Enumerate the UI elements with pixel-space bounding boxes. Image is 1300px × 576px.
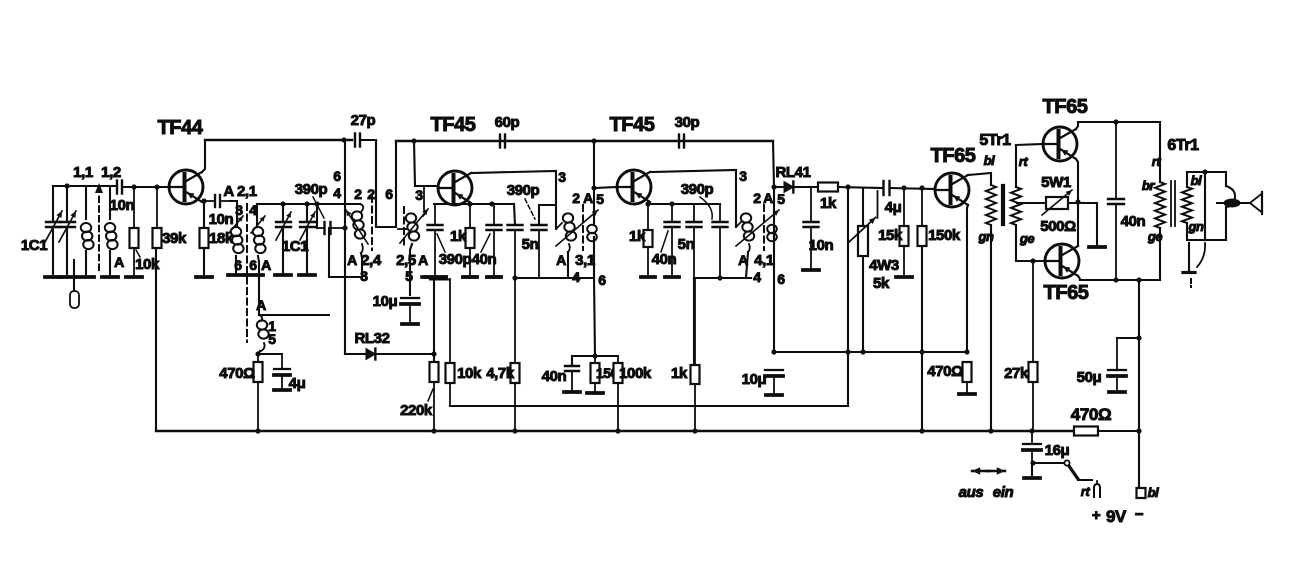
junction TF45b emitter (645, 201, 650, 206)
pointer 390p osc (313, 197, 324, 218)
junction driver bias 150k (919, 185, 924, 190)
label 50u (1077, 369, 1102, 386)
svg-text:2: 2 (753, 190, 761, 206)
diode RL32 (366, 349, 375, 360)
resistor 470R osc (254, 354, 263, 431)
junction switch (1030, 460, 1035, 465)
svg-text:390p: 390p (507, 182, 540, 199)
wire cap 516 down (514, 204, 515, 225)
junction rail B pin3 (411, 138, 416, 143)
svg-text:470Ω: 470Ω (927, 363, 963, 380)
wire 848 down (847, 187, 849, 352)
junction 352 a (771, 349, 776, 354)
label rt 6tr (1152, 154, 1162, 169)
wire upper emitter (1076, 159, 1078, 202)
svg-text:27k: 27k (1004, 365, 1029, 382)
svg-text:220k: 220k (400, 402, 433, 419)
label 470 out (927, 363, 963, 380)
svg-text:40n: 40n (1121, 213, 1146, 230)
pin 6 coil21 a (234, 257, 242, 273)
wire tank to T (328, 228, 330, 277)
transistor TF45 second (617, 170, 651, 204)
terminal bar 40n s1 (487, 275, 501, 279)
wire TF44 collector to rail (202, 140, 205, 172)
svg-text:10n: 10n (110, 197, 135, 214)
wire osc pin2 right (375, 141, 377, 227)
svg-text:2,5: 2,5 (396, 252, 416, 269)
label bl 6tr (1191, 173, 1203, 188)
label ge 6tr (1147, 229, 1163, 244)
oscillator winding 2,4 (346, 204, 368, 253)
label TF65 lower (1043, 282, 1088, 304)
label 4u osc (289, 375, 306, 392)
label 10n emitter (209, 211, 234, 228)
svg-text:A: A (256, 297, 266, 313)
potentiometer 4W3 5k (849, 188, 876, 352)
pin 6 coil21 b (249, 257, 257, 273)
inductor 1,2 winding (105, 186, 118, 277)
wire top out rail (1078, 121, 1160, 123)
ground bar 470 out (959, 392, 975, 396)
svg-text:TF65: TF65 (930, 145, 975, 167)
svg-text:6: 6 (234, 257, 242, 273)
capacitor coupling stage1 (508, 225, 523, 278)
core coil 4,1 (763, 205, 765, 250)
label A feedback (256, 297, 266, 313)
IF coil 2,1 left winding (229, 216, 244, 253)
label 1k det (820, 195, 837, 212)
junction base node 39k (154, 184, 159, 189)
resistor 18k (200, 201, 209, 277)
bus dot 150k (919, 428, 924, 433)
junction RL32 220k (431, 351, 436, 356)
IF coil 2,1 right winding (251, 216, 266, 253)
svg-text:6: 6 (598, 272, 606, 288)
label 6Tr1 (1167, 137, 1199, 154)
wire emitter net 1 (434, 203, 514, 205)
resistor 470 out (963, 362, 972, 392)
label 4,7k (486, 365, 515, 382)
label 2,5 (396, 252, 416, 269)
wire TF45a base (415, 185, 438, 187)
label 27p (351, 112, 376, 129)
ground bar coil 1,2 (102, 275, 118, 279)
svg-text:5k: 5k (873, 275, 890, 292)
label A coil31 (556, 252, 566, 268)
svg-text:ge: ge (1019, 231, 1035, 246)
label 10k det (457, 365, 482, 382)
label gn 6tr (1187, 219, 1204, 234)
rail A top (205, 139, 352, 141)
label 40n s1 (472, 251, 497, 268)
6Tr1 primary (1155, 182, 1165, 228)
wire mid 405 (450, 405, 848, 407)
label 5n s2 (678, 236, 695, 253)
wire coil21 left bottom (235, 256, 237, 275)
terminal bar 1k s2 (641, 275, 655, 279)
junction speaker jack (1202, 169, 1207, 174)
junction TF45a emitter (467, 201, 472, 206)
diode RL41 (774, 182, 818, 193)
svg-text:1,2: 1,2 (101, 164, 121, 181)
junction TF44 emitter (201, 198, 206, 203)
wire 150k to bus (921, 246, 923, 431)
label RL32 (354, 330, 389, 347)
svg-text:6: 6 (333, 168, 341, 184)
junction cap720 bottom (717, 275, 722, 280)
pin 4 coil31 (572, 269, 580, 285)
svg-text:5: 5 (596, 191, 604, 207)
transistor TF45 first (438, 171, 472, 205)
pin 4 coil41 (753, 269, 761, 285)
svg-text:5W1: 5W1 (1041, 174, 1071, 191)
svg-text:4μ: 4μ (885, 199, 902, 216)
terminal bar 1k s1 (463, 275, 477, 279)
resistor 10k det (446, 279, 455, 406)
svg-text:A: A (347, 252, 357, 268)
wire coil31 pin5 (593, 141, 595, 188)
capacitor 5n stage1 (532, 205, 557, 278)
svg-text:A 2,1: A 2,1 (223, 183, 256, 200)
thermistor 5W1 (1017, 190, 1097, 215)
junction 352 b (845, 349, 850, 354)
svg-text:390p: 390p (295, 181, 328, 198)
wire 848 to 405 (450, 352, 848, 406)
switch lever (1069, 466, 1092, 480)
label ein (993, 484, 1014, 501)
svg-text:390p: 390p (681, 181, 714, 198)
svg-text:39k: 39k (162, 230, 187, 247)
label 39k (162, 230, 187, 247)
wire 4u branch (258, 353, 282, 355)
label A coil41 top (763, 190, 773, 206)
pointer 390p s2 (700, 197, 712, 219)
wire driver emitter (967, 205, 968, 352)
capacitor 4u osc (274, 354, 290, 388)
wire upper collector (1076, 122, 1078, 129)
svg-text:390p: 390p (439, 251, 472, 268)
label 390p s1 (439, 251, 472, 268)
label 40n agc (542, 368, 567, 385)
label A 2,1 (223, 183, 256, 200)
wire speaker bottom (1187, 223, 1226, 240)
svg-text:TF65: TF65 (1042, 96, 1087, 118)
svg-text:4: 4 (572, 269, 580, 285)
label 16u (1045, 442, 1070, 459)
svg-text:−: − (1135, 506, 1144, 523)
label 150 (596, 365, 619, 381)
wire osc to RL32 (344, 277, 346, 354)
wire TF45b base (594, 187, 617, 188)
ground bar 10u det (766, 393, 782, 397)
wire 39k to bus (155, 248, 157, 431)
pointer 40n s2 (661, 231, 668, 252)
core 6Tr1 (1171, 181, 1175, 226)
capacitor 4u coupling (878, 181, 890, 218)
svg-text:6: 6 (385, 186, 393, 202)
junction rail stage2 (591, 138, 596, 143)
bus right of 470 (1098, 430, 1139, 432)
capacitor 10n det (804, 187, 819, 268)
junction bus right (1136, 428, 1141, 433)
wire osc bottom T (329, 276, 362, 278)
wire bottom net s1 b (430, 278, 450, 280)
speaker magnet (1226, 186, 1235, 240)
label 30p (675, 114, 700, 131)
label 500 (1040, 218, 1076, 235)
pin 5 coil25 (405, 268, 413, 284)
pin A coil21 (261, 257, 271, 273)
label 10k (135, 256, 160, 273)
bus dot 1k (692, 428, 697, 433)
wire out bottom rail (1080, 279, 1160, 281)
label TF65 driver (930, 145, 975, 167)
ground bar 18k (196, 275, 212, 279)
svg-text:4: 4 (333, 185, 341, 201)
ground bar 16u (1024, 463, 1040, 478)
svg-text:5: 5 (405, 268, 413, 284)
junction osc cap (342, 225, 347, 230)
svg-text:4W3: 4W3 (869, 257, 899, 274)
bus negative rail (156, 430, 1074, 432)
label 27k (1004, 365, 1029, 382)
junction base node 10k (131, 184, 136, 189)
label 3,1 (575, 252, 595, 269)
pin 2 coil41 (753, 190, 761, 206)
pin 3 stage1 (558, 169, 566, 185)
IF winding 4,1 right (736, 210, 779, 246)
label 40n out (1121, 213, 1146, 230)
capacitor 40n out (1108, 122, 1124, 280)
svg-text:27p: 27p (351, 112, 376, 129)
label TF44 (157, 117, 203, 139)
wire TF45a collector (471, 171, 556, 229)
svg-text:rt: rt (1019, 154, 1029, 169)
label 1k s2 (629, 228, 646, 245)
junction agc 595 (592, 353, 597, 358)
svg-text:3: 3 (360, 268, 368, 284)
wire coil25 bottom (410, 244, 412, 295)
svg-text:30p: 30p (675, 114, 700, 131)
5Tr1 primary (986, 185, 996, 225)
junction 470R top (255, 351, 260, 356)
variable capacitor 1C1c (276, 204, 291, 275)
junction out mid (1075, 199, 1080, 204)
IF winding 3,1 left (556, 213, 576, 277)
pointer 40n s1 (481, 234, 490, 252)
wire tank branch 390p (316, 204, 318, 228)
label br 6tr (1142, 178, 1156, 193)
svg-text:6: 6 (777, 271, 785, 287)
junction driver bias 15k (901, 185, 906, 190)
label 15k (878, 227, 903, 244)
svg-text:TF45: TF45 (609, 114, 654, 136)
resistor 27k (1029, 261, 1038, 431)
pin 5 feedback (268, 331, 276, 347)
svg-text:1C1: 1C1 (282, 238, 308, 255)
label A antenna (114, 254, 124, 270)
svg-text:15k: 15k (878, 227, 903, 244)
svg-text:470Ω: 470Ω (219, 365, 255, 382)
label 4u (885, 199, 902, 216)
svg-text:100k: 100k (619, 365, 652, 382)
label A coil25 (418, 252, 428, 268)
wire driver collector (968, 173, 991, 185)
pin 3 osc bottom (360, 268, 368, 284)
bus dot 100k (615, 428, 620, 433)
switch contact wire (1033, 460, 1070, 465)
junction emitter net2 40n (669, 201, 674, 206)
wire 6tr top (1159, 122, 1161, 182)
svg-text:A: A (418, 252, 428, 268)
junction RL41 node (771, 184, 776, 189)
resistor 10k (130, 187, 141, 277)
svg-text:4μ: 4μ (289, 375, 306, 392)
svg-text:1k: 1k (671, 365, 688, 382)
wire speaker top (1187, 172, 1226, 187)
svg-text:10n: 10n (809, 237, 834, 254)
capacitor 10u osc (401, 298, 419, 322)
speaker lens (1217, 199, 1250, 208)
label 1,1 (73, 164, 93, 181)
svg-text:A: A (556, 252, 566, 268)
svg-text:5n: 5n (522, 236, 539, 253)
variable capacitor 1C1b (59, 186, 76, 277)
junction TF45b base (591, 185, 596, 190)
speaker cone (1250, 192, 1262, 214)
pin 2 osc a (354, 186, 362, 202)
junction antenna top a (64, 183, 69, 188)
junction rail A 27p (341, 137, 346, 142)
capacitor 60p (500, 135, 505, 148)
junction tank c1 (280, 201, 285, 206)
bus dot 27k (1029, 428, 1034, 433)
label 10n input (110, 197, 135, 214)
svg-text:A: A (738, 252, 748, 268)
pin 5 coil41 (777, 191, 785, 207)
label A osc (347, 252, 357, 268)
variable capacitor 1C1d (300, 204, 315, 275)
label 5k (873, 275, 890, 292)
label 4W3 (869, 257, 899, 274)
svg-text:2,4: 2,4 (361, 252, 382, 269)
junction det 848 (845, 184, 850, 189)
svg-text:1k: 1k (820, 195, 837, 212)
resistor 150k (918, 188, 927, 246)
label 1C1 (21, 237, 47, 254)
ground bar coil 1,1 (78, 275, 94, 279)
bar 1k s1 b (463, 275, 477, 279)
label 220k (400, 402, 433, 419)
label 470R osc (219, 365, 255, 382)
wire 10n to TF44 base (122, 186, 169, 188)
svg-text:aus: aus (959, 484, 984, 501)
svg-text:RL32: RL32 (354, 330, 389, 347)
capacitor 10n input (117, 181, 122, 194)
wire 4u to driver base (890, 188, 935, 189)
pin 2 coil31 (572, 190, 580, 206)
resistor 15k (900, 188, 909, 277)
wire 40n agc (571, 356, 573, 366)
wire 6tr primary bottom (1159, 228, 1161, 280)
junction right down (1136, 277, 1141, 282)
wire 5tr primary bottom (990, 225, 992, 431)
junction 50u tap (1136, 335, 1141, 340)
label 5W1 (1041, 174, 1071, 191)
wire 27p right (360, 140, 396, 227)
pointer 220k (428, 389, 433, 401)
core coil 2,5 (403, 207, 405, 248)
svg-text:3: 3 (739, 168, 747, 184)
label 390p s2 (681, 181, 714, 198)
junction tank c2 (304, 201, 309, 206)
pin 2 osc b (367, 186, 375, 202)
label 5n s1 (522, 236, 539, 253)
svg-text:10μ: 10μ (373, 293, 398, 310)
label A coil31 top (583, 190, 593, 206)
label ge 5tr (1019, 231, 1035, 246)
wire antenna top rail (53, 185, 117, 187)
transistor TF65 upper (1043, 127, 1077, 161)
5Tr1 secondary (1011, 187, 1021, 225)
ground bar coil21 right (247, 273, 263, 277)
wire bottom net s1 (515, 277, 594, 279)
ground bar coil21 left (228, 273, 244, 277)
wire bottom net s2 (694, 277, 751, 279)
label 2,4 (361, 252, 382, 269)
wire coil21 top right (256, 204, 258, 227)
svg-text:60p: 60p (495, 114, 520, 131)
capacitor 27p (355, 134, 360, 147)
wire coil31 right down (593, 188, 595, 225)
bus dot 220k (431, 428, 436, 433)
wire 5tr sec top (1016, 144, 1043, 187)
ground bar 10k (126, 275, 142, 279)
label 10u (373, 293, 398, 310)
pointer 390p s1 (437, 234, 445, 252)
pin 3 coil21 (235, 202, 243, 218)
svg-text:3,1: 3,1 (575, 252, 595, 269)
switch arrow (972, 467, 1005, 475)
wire coil21 pin4 up (258, 256, 259, 315)
wire det out (838, 187, 883, 188)
junction 352 e (964, 349, 969, 354)
bus dot 47k (512, 428, 517, 433)
ground bar 1C1c (275, 273, 291, 277)
svg-text:bl: bl (1148, 485, 1160, 500)
svg-text:6Tr1: 6Tr1 (1167, 137, 1199, 154)
junction 40n out bottom (1113, 277, 1118, 282)
svg-text:TF45: TF45 (430, 114, 475, 136)
bus dot 470 (255, 428, 260, 433)
svg-text:10μ: 10μ (742, 371, 767, 388)
wire osc pin2 left (344, 140, 346, 277)
svg-text:rt: rt (1081, 484, 1091, 499)
wire lower collector (1077, 202, 1079, 246)
capacitor 50u (1108, 338, 1126, 390)
label 1k s1 (450, 228, 467, 245)
resistor 100k (614, 356, 623, 431)
resistor 4,7k (511, 278, 520, 431)
wire 5n s2 down (693, 278, 695, 365)
terminal bar 40n s2 (665, 275, 679, 279)
svg-text:6: 6 (249, 257, 257, 273)
svg-text:1k: 1k (450, 228, 467, 245)
wire emitter net 2 (648, 203, 720, 205)
bus dot 5tr (988, 428, 993, 433)
label 470 bus (1071, 405, 1111, 424)
ground bar 40n agc (564, 390, 580, 394)
